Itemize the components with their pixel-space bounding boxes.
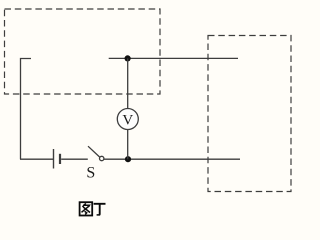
svg-text:V: V [122,113,133,129]
wire: battery to switch [61,158,88,160]
caption 图丁 : glyph 图 [80,202,93,215]
junction dot top [125,55,131,61]
wire: bottom-left to battery [20,158,54,160]
wire: left branch with top stub [21,59,32,160]
wire: voltmeter top lead [127,58,129,108]
wire: voltmeter bottom lead [127,129,129,159]
dashed box top-left (placeholder) [5,9,161,94]
caption 图丁 : glyph 丁 [94,204,106,215]
wire: top horizontal [109,57,238,59]
switch S blade (open) [88,146,100,157]
voltmeter V1 circle [117,109,138,130]
dashed box right (placeholder) [208,36,291,192]
wire: switch to right end (bottom) [104,158,240,160]
battery: short thick plate [59,154,61,164]
battery: long plate [53,149,55,169]
svg-text:S: S [86,165,95,182]
switch S contact circle [100,156,104,160]
junction dot bottom [125,156,131,162]
